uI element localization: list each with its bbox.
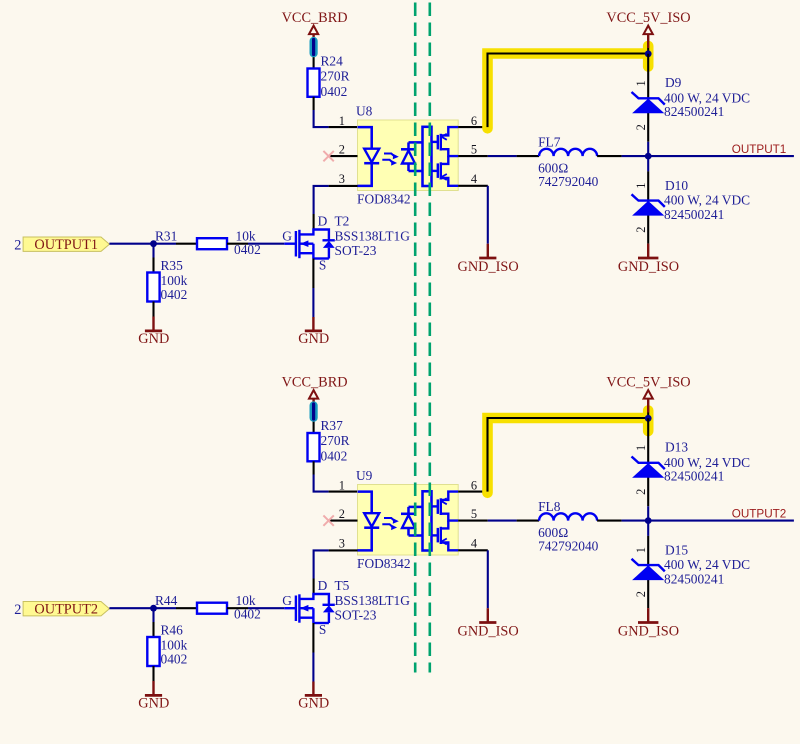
svg-text:OUTPUT2: OUTPUT2: [732, 508, 787, 521]
ground GND_ISO under pin 4 of U9: [458, 608, 519, 639]
svg-text:FOD8342: FOD8342: [357, 192, 411, 207]
wire R46 to GND: [152, 666, 154, 681]
svg-text:0402: 0402: [161, 287, 188, 302]
wire pin 4 down to GND_ISO: [487, 550, 489, 608]
pin 6 stub of U8: [458, 126, 487, 128]
svg-text:2: 2: [339, 507, 345, 521]
svg-text:6: 6: [471, 478, 477, 492]
wire R35 to GND: [152, 302, 154, 317]
highlighted wire pin 6 to VCC_5V_ISO (yellow): [488, 46, 649, 128]
resistor R44 10k 0402 (horizontal): [155, 593, 261, 621]
wire resistor R44 to gate of T5: [227, 607, 248, 609]
svg-text:824500241: 824500241: [664, 469, 724, 484]
ground GND under T5: [298, 682, 329, 712]
wire pin 4 down to GND_ISO: [487, 186, 489, 244]
svg-text:2: 2: [634, 489, 648, 495]
svg-text:1: 1: [634, 183, 648, 189]
svg-text:VCC_5V_ISO: VCC_5V_ISO: [606, 375, 690, 391]
svg-text:742792040: 742792040: [538, 174, 599, 189]
svg-text:GND: GND: [138, 695, 169, 711]
op-amp / optocoupler U8 FOD8342 body: [358, 120, 459, 191]
wire pin 5 to FL7: [488, 155, 517, 157]
transistor T5 BSS138LT1G SOT-23: [284, 594, 335, 623]
svg-text:R31: R31: [155, 229, 177, 244]
coupling plate inside U9: [423, 491, 432, 550]
svg-text:S: S: [319, 258, 326, 273]
wire FL7 to output node: [622, 155, 649, 157]
output MOSFET (lower) inside U9: [432, 521, 459, 551]
svg-text:D9: D9: [665, 75, 682, 90]
wire source of T5 to GND: [312, 623, 314, 653]
wire R24 to pin 1 of U8: [313, 97, 315, 110]
svg-text:3: 3: [339, 172, 345, 186]
svg-text:1: 1: [339, 114, 345, 128]
svg-text:5: 5: [471, 142, 477, 156]
svg-text:VCC_5V_ISO: VCC_5V_ISO: [606, 10, 690, 26]
wire pin 3 down to drain of T5: [314, 550, 329, 578]
wire pin 3 down to drain of T2: [314, 186, 329, 214]
wire VCC node down through D13: [647, 418, 649, 506]
svg-text:400 W, 24 VDC: 400 W, 24 VDC: [664, 193, 750, 208]
resistor R46 100k 0402 (vertical): [147, 623, 187, 667]
opto emission arrows: [382, 518, 399, 530]
LED emitter inside U8: [358, 127, 380, 186]
svg-text:D15: D15: [665, 542, 688, 557]
inductor FL7 600&#8486; 742792040: [517, 135, 622, 189]
svg-text:D13: D13: [665, 440, 688, 455]
wire VCC_BRD to R24: [313, 48, 315, 69]
svg-text:GND_ISO: GND_ISO: [458, 623, 519, 639]
svg-text:2: 2: [14, 602, 21, 618]
wire resistor R31 to gate of T2: [227, 243, 248, 245]
wire output node to sheet edge OUTPUT1: [648, 155, 794, 157]
svg-text:400 W, 24 VDC: 400 W, 24 VDC: [664, 455, 750, 470]
wire OUTPUT2 port to junction: [109, 607, 176, 609]
wire OUTPUT1 port to junction: [109, 243, 176, 245]
svg-text:6: 6: [471, 114, 477, 128]
svg-text:GND_ISO: GND_ISO: [618, 623, 679, 639]
diode D9 TVS 400 W, 24 VDC: [632, 75, 751, 119]
no-ERC X marker on pin 2: [323, 515, 333, 525]
transistor T2 BSS138LT1G SOT-23: [284, 230, 335, 259]
svg-text:FL7: FL7: [538, 135, 561, 150]
no-ERC X marker on pin 2: [323, 151, 333, 161]
power port VCC_BRD: [282, 10, 348, 48]
ground GND_ISO under D15: [618, 608, 679, 639]
power port VCC_BRD: [282, 375, 348, 413]
svg-text:824500241: 824500241: [664, 572, 724, 587]
svg-text:BSS138LT1G: BSS138LT1G: [335, 229, 411, 244]
svg-text:1: 1: [634, 547, 648, 553]
pin 6 stub of U9: [458, 491, 487, 493]
resistor R35 100k 0402 (vertical): [147, 258, 187, 302]
svg-text:D10: D10: [665, 178, 688, 193]
svg-text:R46: R46: [161, 623, 184, 638]
cyan no-ERC / blanket marker on VCC_BRD wire: [310, 404, 318, 419]
svg-text:OUTPUT1: OUTPUT1: [34, 237, 98, 253]
wire junction down to R35: [152, 244, 154, 258]
opto emission arrows: [382, 154, 399, 166]
svg-text:G: G: [282, 593, 292, 608]
op-amp / optocoupler U9 FOD8342 body: [358, 485, 459, 556]
power port VCC_5V_ISO: [606, 10, 690, 48]
wire junction down to R46: [152, 608, 154, 622]
svg-text:1: 1: [339, 479, 345, 493]
resistor R24 270R 0402 (vertical): [308, 54, 350, 99]
node VCC_5V_ISO junction: [645, 415, 652, 422]
svg-text:1: 1: [634, 445, 648, 451]
svg-text:S: S: [319, 622, 326, 637]
svg-text:GND: GND: [298, 695, 329, 711]
wire VCC_BRD to R37: [313, 413, 315, 434]
svg-text:1: 1: [634, 80, 648, 86]
wire/pin into resistor R31: [176, 243, 197, 245]
svg-text:U8: U8: [356, 104, 373, 119]
wire VCC node down through D9: [647, 54, 649, 142]
svg-text:2: 2: [14, 238, 21, 254]
svg-text:OUTPUT1: OUTPUT1: [732, 143, 787, 156]
wire output node to sheet edge OUTPUT2: [648, 520, 794, 522]
svg-text:GND_ISO: GND_ISO: [618, 259, 679, 275]
wire source of T2 to GND: [312, 259, 314, 289]
svg-text:SOT-23: SOT-23: [335, 243, 377, 258]
photodiode inside U9: [401, 507, 423, 536]
svg-text:100k: 100k: [161, 273, 188, 288]
ground GND under T2: [298, 317, 329, 347]
isolation boundary dashed line (left): [414, 3, 417, 673]
svg-text:2: 2: [634, 226, 648, 232]
svg-text:2: 2: [634, 124, 648, 130]
svg-text:0402: 0402: [321, 449, 348, 464]
node junction at R31: [150, 240, 157, 247]
svg-text:824500241: 824500241: [664, 104, 724, 119]
pin 3 stub of U8: [329, 185, 358, 187]
output MOSFET (lower) inside U8: [432, 156, 459, 186]
node VCC_5V_ISO junction: [645, 50, 652, 57]
svg-text:U9: U9: [356, 468, 373, 483]
svg-text:G: G: [282, 229, 292, 244]
svg-text:400 W, 24 VDC: 400 W, 24 VDC: [664, 90, 750, 105]
svg-text:VCC_BRD: VCC_BRD: [282, 10, 348, 26]
ground GND_ISO under D10: [618, 244, 679, 275]
output MOSFET (upper) inside U8: [432, 127, 459, 156]
svg-text:GND: GND: [298, 331, 329, 347]
svg-text:FL8: FL8: [538, 499, 561, 514]
svg-text:VCC_BRD: VCC_BRD: [282, 375, 348, 391]
svg-text:0402: 0402: [161, 652, 188, 667]
svg-text:GND: GND: [138, 331, 169, 347]
wire R37 to pin 1 of U9: [313, 461, 315, 474]
svg-text:742792040: 742792040: [538, 538, 599, 553]
svg-text:GND_ISO: GND_ISO: [458, 259, 519, 275]
photodiode inside U8: [401, 142, 423, 171]
isolation boundary dashed line (right): [428, 3, 431, 673]
svg-text:R24: R24: [321, 54, 344, 69]
inductor FL8 600&#8486; 742792040: [517, 499, 622, 553]
output MOSFET (upper) inside U9: [432, 492, 459, 521]
power port VCC_5V_ISO: [606, 375, 690, 413]
svg-text:BSS138LT1G: BSS138LT1G: [335, 593, 411, 608]
port OUTPUT2 (left sheet entry): [23, 602, 109, 618]
pin 5 stub of U9: [458, 520, 488, 522]
ground GND under R35: [138, 317, 169, 347]
wire/pin into resistor R44: [176, 607, 197, 609]
svg-text:R37: R37: [321, 418, 344, 433]
node junction at R44: [150, 605, 157, 612]
resistor R31 10k 0402 (horizontal): [155, 229, 261, 257]
node OUTPUT2 junction: [645, 517, 652, 524]
diode D10 TVS 400 W, 24 VDC: [632, 178, 751, 222]
ground GND_ISO under pin 4 of U8: [458, 244, 519, 275]
svg-text:824500241: 824500241: [664, 207, 724, 222]
diode D15 TVS 400 W, 24 VDC: [632, 542, 751, 586]
port OUTPUT1 (left sheet entry): [23, 237, 109, 253]
pin 5 stub of U8: [458, 155, 488, 157]
svg-text:4: 4: [471, 172, 477, 186]
svg-text:FOD8342: FOD8342: [357, 556, 411, 571]
svg-text:SOT-23: SOT-23: [335, 608, 377, 623]
svg-text:R44: R44: [155, 593, 178, 608]
svg-text:100k: 100k: [161, 638, 188, 653]
svg-text:D: D: [318, 214, 328, 229]
svg-text:3: 3: [339, 537, 345, 551]
diode D13 TVS 400 W, 24 VDC: [632, 440, 751, 484]
pin 2 stub (not connected) of U8: [329, 155, 358, 157]
wire FL8 to output node: [622, 520, 649, 522]
pin 2 stub (not connected) of U9: [329, 520, 358, 522]
svg-text:T2: T2: [335, 214, 350, 229]
cyan no-ERC / blanket marker on VCC_BRD wire: [310, 40, 318, 55]
coupling plate inside U8: [423, 127, 432, 186]
svg-text:5: 5: [471, 507, 477, 521]
svg-text:T5: T5: [335, 578, 350, 593]
svg-text:2: 2: [634, 591, 648, 597]
svg-text:OUTPUT2: OUTPUT2: [34, 602, 98, 618]
svg-text:270R: 270R: [321, 433, 350, 448]
pin 4 stub of U8: [458, 185, 488, 187]
resistor R37 270R 0402 (vertical): [308, 418, 350, 463]
highlighted wire pin 6 to VCC_5V_ISO (yellow): [488, 411, 649, 493]
svg-text:4: 4: [471, 537, 477, 551]
svg-text:400 W, 24 VDC: 400 W, 24 VDC: [664, 557, 750, 572]
ground GND under R46: [138, 681, 169, 711]
svg-text:D: D: [318, 578, 328, 593]
wire pin 5 to FL8: [488, 520, 517, 522]
svg-text:2: 2: [339, 142, 345, 156]
svg-text:270R: 270R: [321, 69, 350, 84]
pin 3 stub of U9: [329, 549, 358, 551]
pin 4 stub of U9: [458, 549, 488, 551]
LED emitter inside U9: [358, 492, 380, 551]
node OUTPUT1 junction: [645, 153, 652, 160]
svg-text:R35: R35: [161, 258, 184, 273]
svg-text:0402: 0402: [321, 84, 348, 99]
